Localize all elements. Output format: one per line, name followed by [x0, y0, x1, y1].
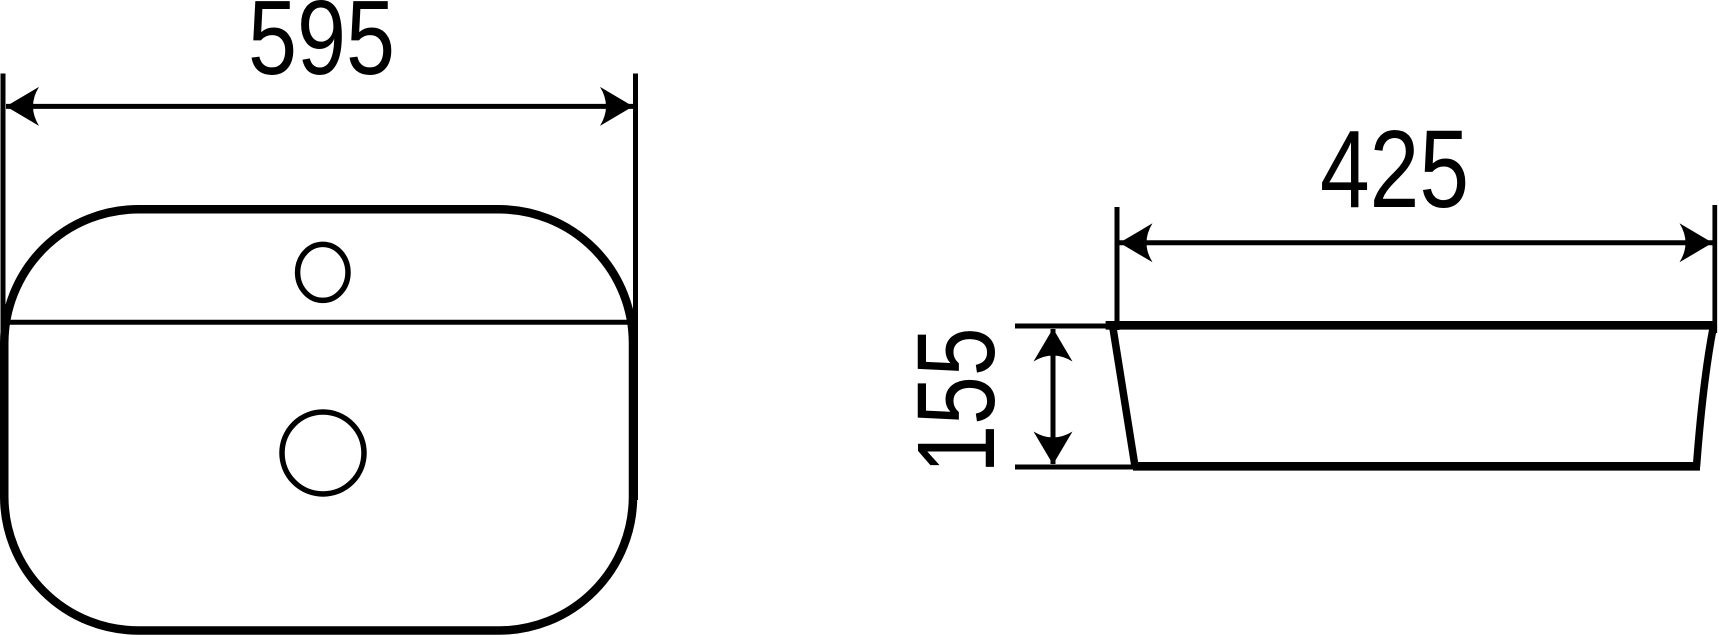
height dimension line [1051, 329, 1056, 464]
width dimension: right extension line [633, 74, 638, 501]
height dimension: bottom extension line [1015, 465, 1136, 470]
height down arrowhead [1034, 432, 1073, 465]
side view top edge [1106, 321, 1717, 330]
svg-text:595: 595 [248, 0, 395, 97]
side view bottom edge [1133, 462, 1700, 471]
dimension text 155 (rotated) [895, 328, 1018, 474]
depth dimension: right extension line [1712, 205, 1717, 333]
side view left slant [1113, 325, 1136, 466]
basin outline [4, 209, 633, 630]
left arrowhead [6, 87, 39, 126]
depth dimension line [1120, 240, 1713, 245]
height up arrowhead [1034, 329, 1073, 362]
width dimension line [6, 104, 633, 109]
depth right arrowhead [1680, 223, 1713, 262]
faucet hole [298, 244, 348, 300]
height dimension: top extension line [1015, 324, 1120, 329]
shelf line [3, 320, 634, 325]
depth dimension: left extension line [1115, 207, 1120, 330]
width dimension: left extension line [1, 74, 6, 501]
side view right slant [1697, 326, 1714, 466]
svg-text:155: 155 [895, 328, 1018, 474]
depth left arrowhead [1120, 223, 1153, 262]
svg-text:425: 425 [1320, 108, 1469, 231]
right arrowhead [600, 87, 633, 126]
drain hole [282, 412, 364, 494]
